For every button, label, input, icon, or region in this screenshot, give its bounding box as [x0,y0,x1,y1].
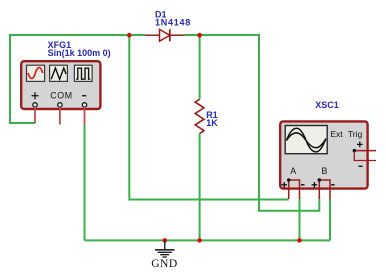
diode D1 [145,29,185,41]
wire XFG minus down to ground rail [84,125,86,241]
XFG1 pin stub COM [59,107,61,125]
XSC1 screen sine small [287,133,326,148]
resistor R1 [195,99,204,133]
svg-text:B: B [322,166,328,176]
XFG1 terminal minus [82,103,86,107]
function generator XFG1 body [21,61,100,109]
XSC1 channel A pin stubs [288,180,290,199]
wire top from XFG plus loop to diode anode [10,35,145,123]
XSC1 ext trig minus sign [359,165,363,167]
XFG1 sine button [27,65,45,81]
XFG1 square button [74,65,92,81]
XFG1 minus sign [82,95,86,97]
wire top-right corner down to scope channel B plus [259,34,319,211]
wire ground rail [85,239,331,241]
ground [155,240,175,257]
junction node at diode cathode [197,33,202,38]
XFG1 terminal plus [33,103,37,107]
svg-text:1K: 1K [206,118,218,128]
XSC1 channel B pin stubs [318,180,320,199]
oscilloscope XSC1 body [280,121,367,188]
svg-text:GND: GND [151,257,178,270]
XFG1 pin stub minus [84,107,86,125]
junction node at ground tap [163,238,168,243]
XSC1 channel A pin dot [287,178,290,181]
XSC1 screen sine big [287,128,326,152]
junction node scope A minus on rail [297,238,302,243]
wire cathode node down to resistor top [199,34,201,99]
XSC1 channel B minus sign [331,184,335,186]
XSC1 channel B plus sign [312,182,318,188]
junction node resistor bottom on rail [197,238,202,243]
wire scope channel A minus to ground rail [299,199,301,241]
XSC1 channel B pin dot [318,178,321,181]
XFG1 terminal COM [58,103,62,107]
XSC1 screen [285,126,327,154]
svg-text:Sin(1k 100m 0): Sin(1k 100m 0) [48,48,111,58]
XFG1 triangle button [50,65,68,81]
wire diode cathode to top-right corner [185,34,260,36]
wire node A drop to scope channel A plus [129,34,288,200]
svg-text:XSC1: XSC1 [315,100,339,110]
XFG1 pin stub plus [34,107,36,123]
wire scope channel B minus to ground rail [329,199,331,241]
junction node at diode anode [127,33,132,38]
XSC1 ext trig plus sign [357,142,363,148]
XSC1 channel A minus sign [301,184,305,186]
XSC1 channel A plus sign [281,182,287,188]
XFG1 plus sign [32,92,39,99]
svg-text:COM: COM [50,91,72,101]
XSC1 ext trig pin [354,150,376,152]
svg-text:A: A [290,166,296,176]
wire resistor bottom to ground rail [199,134,201,241]
svg-text:1N4148: 1N4148 [155,18,191,28]
